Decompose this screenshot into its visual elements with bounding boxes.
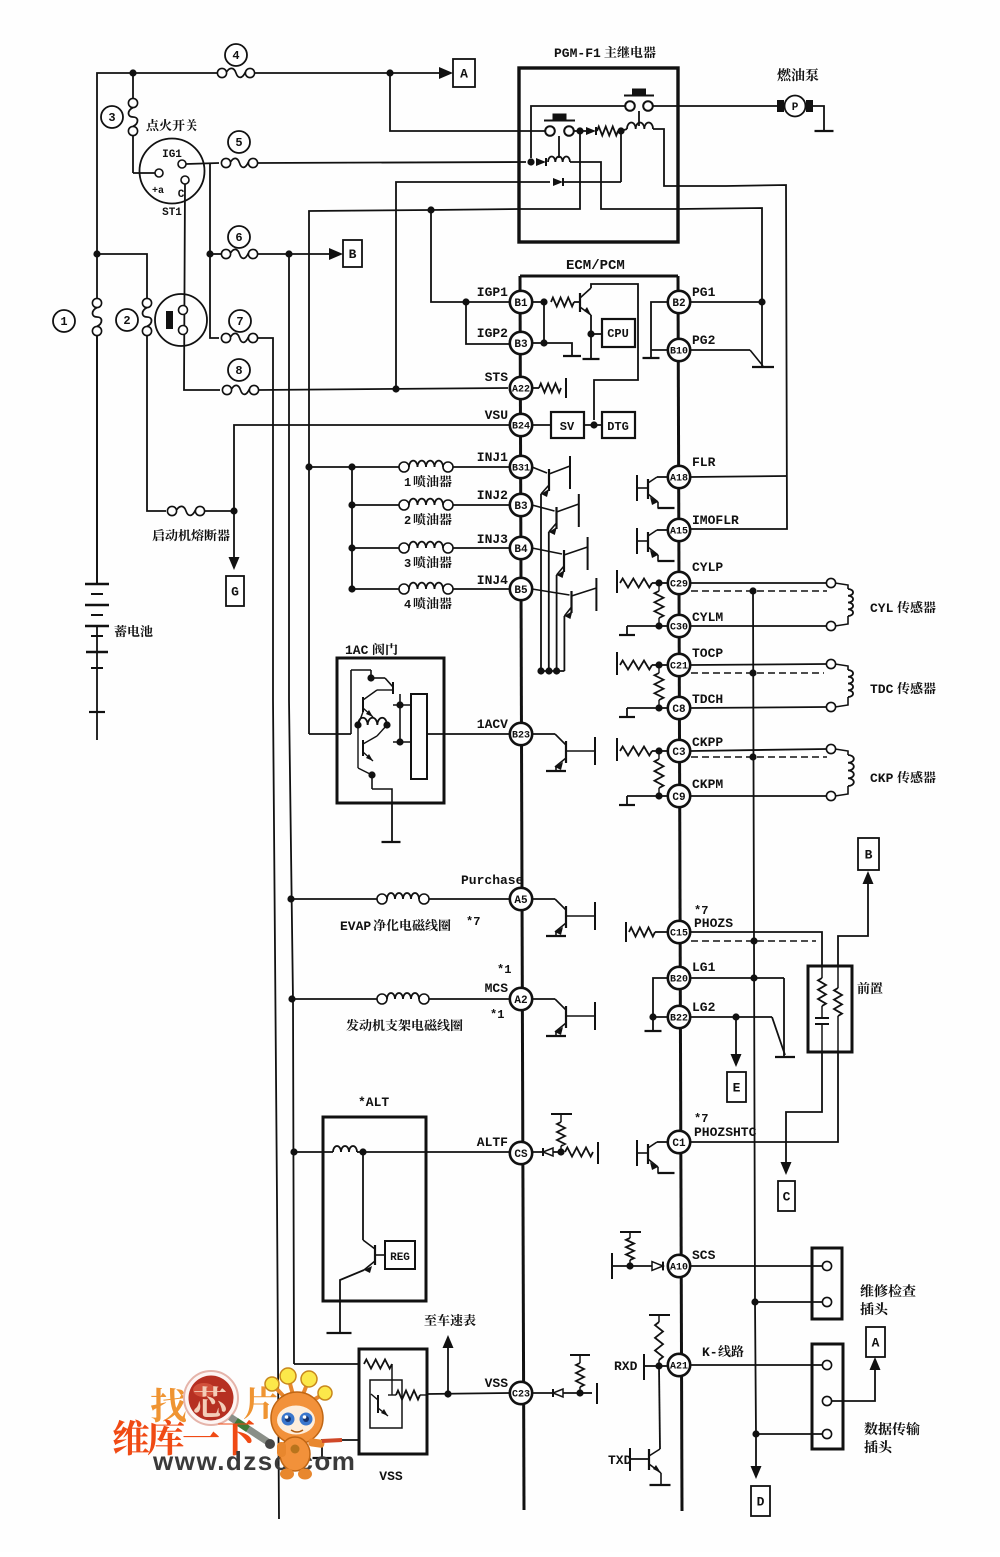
battery 蓄电池	[85, 336, 109, 740]
node SV-DTG	[584, 421, 602, 428]
svg-text:B22: B22	[670, 1014, 688, 1025]
svg-text:B3: B3	[514, 501, 528, 513]
label 1ACV	[477, 717, 508, 732]
pin A15 (IMOFLR)	[668, 519, 690, 541]
1AC valve armature rect	[411, 694, 427, 779]
wire inj2 emitter down	[548, 532, 550, 671]
terminal bar TXD	[630, 1448, 649, 1471]
terminal bar RXD	[644, 1354, 659, 1380]
label TDCH	[692, 692, 723, 707]
ECM box left border	[520, 276, 524, 1510]
svg-text:C: C	[783, 1190, 791, 1205]
wire fuse2 to starter fuse	[147, 336, 166, 511]
resistor R4 (PHOZS)	[626, 922, 668, 942]
shield wire CKP (dashed)	[691, 756, 827, 758]
wire CKPP to sensor	[691, 749, 826, 751]
svg-text:PHOZSHTC: PHOZSHTC	[694, 1125, 757, 1140]
ECM box top border	[520, 275, 678, 278]
fuse 7	[221, 310, 257, 343]
transistor Q6 (Purchase driver)	[533, 899, 595, 936]
svg-text:C3: C3	[672, 747, 686, 759]
svg-text:B5: B5	[514, 585, 528, 597]
svg-text:C8: C8	[672, 704, 686, 716]
node LG1 shield tie	[750, 974, 757, 981]
ignition switch label 点火开关	[146, 119, 196, 131]
node shield PHOZS	[750, 937, 757, 944]
relay contact K1 (fuel pump)	[624, 89, 654, 111]
wire IGP1-IGP2 internal tie	[543, 302, 545, 343]
connector box B2	[858, 838, 879, 870]
svg-text:LG2: LG2	[692, 1000, 716, 1015]
resistor R5 (preamp left)	[818, 966, 826, 1018]
wire PHOZS to preamp	[691, 932, 822, 966]
fuse 5	[221, 131, 257, 168]
ground fuel pump	[815, 130, 834, 132]
wire 1AC feed entry	[309, 733, 351, 735]
label STS	[485, 370, 509, 385]
terminal bar ALTF	[597, 1142, 599, 1164]
terminal bar VSS	[580, 1383, 597, 1404]
connector box A	[453, 59, 475, 87]
wire armature K1	[638, 111, 640, 126]
node speedometer tap	[444, 1390, 451, 1397]
wire inj3 emitter down	[556, 575, 558, 671]
label 3喷油器	[404, 556, 452, 571]
pin C3 (CKPP)	[668, 740, 690, 762]
node shield to data connector	[752, 1430, 759, 1437]
svg-text:B2: B2	[672, 298, 685, 310]
watermark dzsc logo	[113, 1368, 356, 1480]
arrow to connector B	[329, 248, 343, 260]
terminal bar SCS	[612, 1253, 630, 1279]
wire preamp right to connector B arrow	[838, 874, 868, 966]
wire ST1 to fuse 8	[184, 184, 220, 390]
svg-text:A10: A10	[670, 1263, 688, 1274]
wire fuse7 net vertical	[258, 338, 279, 1519]
resistor network TDC (C21/C8)	[617, 652, 668, 717]
resistor R7 (ALTF series)	[565, 1148, 593, 1157]
label Purchase	[461, 873, 524, 888]
wire LG2 diagonal to ground	[772, 1017, 785, 1055]
arrow to connector E	[731, 1054, 742, 1067]
fuse 4	[217, 44, 254, 78]
shield wire TDC (dashed)	[691, 672, 824, 674]
svg-text:STS: STS	[485, 370, 509, 385]
shield wire CYL (dashed)	[691, 590, 827, 592]
transistor Q7 (MCS driver)	[533, 999, 595, 1036]
wire to ignition +a	[133, 172, 155, 174]
transistor Q5 (PHOZSHTC)	[637, 1140, 675, 1173]
connector box G	[226, 576, 244, 606]
wire PG1 to ground	[761, 302, 763, 366]
svg-text:EVAP: EVAP	[340, 919, 371, 934]
pin A21 (K-line)	[668, 1354, 690, 1376]
label *1 below MCS	[490, 1008, 504, 1022]
ECM/PCM label	[566, 258, 625, 274]
svg-text:P: P	[792, 102, 799, 114]
label 1喷油器	[404, 475, 452, 490]
label K-线路	[702, 1345, 744, 1360]
node LG2 branch E	[732, 1013, 739, 1020]
svg-text:IGP2: IGP2	[477, 326, 508, 341]
svg-text:C21: C21	[670, 662, 688, 673]
svg-text:SV: SV	[560, 420, 575, 434]
label *7 MCS row	[466, 915, 480, 929]
terminal bar ALTF pullup	[551, 1113, 572, 1115]
injector coil 3喷油器	[352, 542, 509, 553]
svg-text:LG1: LG1	[692, 960, 716, 975]
terminal bar SCS pullup	[620, 1231, 641, 1233]
connector box A2	[866, 1327, 885, 1357]
pin C21 (TOCP)	[668, 654, 690, 676]
label INJ3	[477, 532, 508, 547]
wire LG1	[691, 977, 784, 979]
node shield CYL	[749, 587, 756, 594]
label 前置	[857, 982, 882, 994]
wire battery positive rail	[97, 73, 448, 584]
label 至车速表	[424, 1314, 475, 1326]
label Purchase *1	[497, 963, 511, 977]
node shield to service connector	[751, 1298, 758, 1305]
wire FLR to relay coil vertical	[691, 476, 787, 477]
pin C8 (TDCH)	[668, 697, 690, 719]
label PG2	[692, 333, 716, 348]
transistor Q inj3	[532, 537, 588, 578]
node MCS feed	[288, 995, 295, 1002]
label MCS	[485, 981, 509, 996]
node fuse6 branch	[285, 250, 292, 257]
wire RXD node to TXD transistor	[659, 1366, 660, 1449]
wire to fuse 2	[97, 254, 147, 298]
svg-text:ALTF: ALTF	[477, 1135, 508, 1150]
svg-text:B4: B4	[514, 544, 528, 556]
pin C30 (CYLM)	[668, 615, 690, 637]
wire preamp right to PHOZSHTC	[691, 1052, 838, 1142]
transistor Q8 (regulator)	[363, 1240, 385, 1273]
pin C15 (PHOZS)	[668, 921, 690, 943]
label *ALT	[358, 1095, 389, 1110]
wire coil L2 to relay output right	[570, 162, 678, 209]
wire arrow stem to E	[735, 1017, 737, 1060]
VSS sensor box	[359, 1349, 427, 1454]
svg-text:CYL: CYL	[870, 601, 894, 616]
wire fuse5 to relay coil	[258, 162, 526, 163]
svg-text:A: A	[460, 67, 468, 82]
wire shield to service connector	[755, 1301, 822, 1303]
transistor Q2 (1ACV driver)	[533, 734, 595, 771]
node IGP2 branch	[462, 298, 469, 305]
svg-text:A2: A2	[514, 995, 527, 1007]
wire to speedometer	[447, 1341, 449, 1394]
TDC sensor coil	[826, 659, 853, 711]
wire PG2 external	[691, 350, 763, 366]
label *7 PHOZS	[694, 904, 733, 931]
label INJ1	[477, 450, 508, 465]
label IGP1	[477, 285, 508, 300]
svg-text:B: B	[865, 848, 873, 863]
svg-text:VSS: VSS	[485, 1376, 509, 1391]
wire fuse6 net vertical	[289, 254, 294, 1364]
wire inj1 emitter down	[540, 494, 542, 671]
1AC valve internal circuit	[351, 668, 411, 803]
node STS/relay-diode junction	[392, 385, 399, 392]
svg-text:K-: K-	[702, 1345, 718, 1360]
fuse 8	[222, 359, 258, 395]
wire VSS to C23	[427, 1393, 509, 1394]
svg-text:CKP: CKP	[870, 771, 894, 786]
svg-text:IMOFLR: IMOFLR	[692, 513, 739, 528]
node RXD	[655, 1362, 662, 1369]
svg-text:A21: A21	[670, 1362, 688, 1373]
pin B3 (INJ2)	[510, 494, 532, 516]
wire inj4 emitter down	[563, 616, 565, 671]
wire B10 internal tie	[651, 349, 668, 351]
wire ALTF to CS	[363, 1151, 509, 1153]
arrow to connector C	[781, 1162, 792, 1175]
pin B1 (IGP1)	[510, 291, 532, 313]
label INJ2	[477, 488, 508, 503]
wire PG1 external	[691, 301, 762, 303]
label VSS box	[379, 1469, 403, 1484]
label IGP2	[477, 326, 508, 341]
resistor R10 (SCS pullup)	[626, 1232, 634, 1266]
fuse 3	[101, 73, 138, 173]
pin CS (ALTF)	[510, 1142, 532, 1164]
resistor R2 (IGP1 base)	[551, 298, 574, 307]
node coil L1 input	[617, 127, 627, 134]
label PG1	[692, 285, 716, 300]
pin B31 (INJ1)	[510, 456, 532, 478]
svg-text:www.dzsc.com: www.dzsc.com	[152, 1446, 356, 1476]
terminal bar K-line pullup	[649, 1314, 670, 1316]
resistor R8 (ALTF pullup)	[557, 1114, 565, 1152]
data link connector box	[812, 1344, 843, 1449]
wire fuse8 to STS pin A22	[259, 388, 508, 390]
REG box	[385, 1241, 415, 1269]
injector coil 1喷油器	[352, 461, 509, 472]
wire Q1 collector loop to DTG node	[591, 284, 638, 420]
shield wire PHOZS (dashed)	[691, 940, 816, 942]
label SCS	[692, 1248, 716, 1263]
pin B20 (LG1)	[668, 967, 690, 989]
connector box E	[727, 1072, 746, 1102]
wire RXD to A21	[659, 1365, 668, 1367]
pin A5 (Purchase)	[510, 888, 532, 910]
svg-text:B31: B31	[512, 464, 530, 475]
svg-text:3: 3	[108, 111, 115, 125]
svg-text:PHOZS: PHOZS	[694, 916, 733, 931]
wire IG1 branch down to fuse6/fuse7	[210, 163, 219, 338]
relay label PGM-F1主继电器	[554, 46, 656, 61]
node SCS internal	[626, 1262, 633, 1269]
transistor Q inj1	[532, 456, 570, 497]
wire fuse6 to connector B	[258, 253, 337, 255]
arrow to connector D	[751, 1466, 762, 1479]
svg-text:MCS: MCS	[485, 981, 509, 996]
node shield TDC	[749, 669, 756, 676]
svg-text:TOCP: TOCP	[692, 646, 723, 661]
svg-text:B20: B20	[670, 975, 688, 986]
wire ALT coil to regulator transistor	[362, 1152, 364, 1240]
label 4喷油器	[404, 597, 452, 612]
wire injector emitter bus	[537, 667, 564, 674]
label LG1	[692, 960, 716, 975]
battery label 蓄电池	[114, 625, 152, 637]
node injector feed 2	[348, 501, 355, 508]
svg-text:A5: A5	[514, 895, 528, 907]
wire VSU feed	[234, 425, 509, 511]
node injector feed 4	[348, 585, 355, 592]
fuse 6	[210, 226, 258, 259]
node IGP feed	[427, 206, 434, 213]
svg-text:1: 1	[60, 315, 67, 329]
svg-text:TXD: TXD	[608, 1453, 632, 1468]
transistor Q4 (IMOFLR driver)	[637, 528, 675, 561]
wire LG2	[691, 1016, 772, 1018]
svg-text:4: 4	[232, 49, 239, 63]
node ALTF internal	[557, 1148, 564, 1155]
svg-text:B1: B1	[514, 298, 528, 310]
terminal bar VSS pullup	[570, 1354, 590, 1356]
diode D1	[574, 127, 596, 135]
node coil L2 input	[527, 158, 534, 165]
node fuse3/fuse4 junction	[129, 69, 136, 76]
node injector feed 1	[305, 463, 355, 470]
arrow to connector A	[439, 67, 453, 79]
node B1 internal	[532, 298, 548, 305]
svg-text:A22: A22	[512, 385, 530, 396]
wire K2 node to left output	[519, 131, 580, 209]
wire relay output to IGP	[309, 209, 519, 734]
label CKPM	[692, 777, 723, 792]
terminal bar STS	[565, 378, 567, 398]
transistor Q1 (IGP)	[574, 288, 591, 315]
wire B20-B22 internal	[653, 978, 668, 1017]
pin C1 (PHOZSHTC)	[668, 1131, 690, 1153]
wire coil L1 right to PG ground exit	[653, 129, 726, 186]
wire CYLP to sensor	[691, 582, 826, 584]
capacitor C preamp	[815, 1018, 829, 1052]
node B3 internal	[532, 339, 548, 346]
node fuse 6 input	[206, 250, 213, 257]
wire VSS box lower ground	[322, 1440, 359, 1457]
svg-text:CS: CS	[514, 1149, 528, 1161]
service check connector box	[812, 1248, 842, 1319]
svg-text:*1: *1	[490, 1008, 504, 1022]
pin C29 (CYLP)	[668, 572, 690, 594]
label 1AC阀门	[345, 643, 397, 658]
diode D3	[553, 131, 621, 186]
svg-text:CYLM: CYLM	[692, 610, 723, 625]
wire relay contact feed	[390, 73, 545, 131]
fuel pump label 燃油泵	[777, 68, 818, 81]
EVAP solenoid coil EVAP净化电磁线圈	[291, 893, 509, 904]
pin B5 (INJ4)	[510, 578, 532, 600]
svg-text:*7: *7	[694, 1112, 708, 1126]
fuse 2	[116, 298, 152, 335]
svg-text:C23: C23	[512, 1390, 530, 1401]
svg-text:*ALT: *ALT	[358, 1095, 389, 1110]
pin A10 (SCS)	[668, 1255, 690, 1277]
resistor R6 (preamp right)	[834, 966, 842, 1052]
ground VSS box	[313, 1457, 332, 1459]
DTG box	[602, 412, 635, 438]
svg-text:D: D	[757, 1495, 765, 1510]
resistor R9 (VSS pullup)	[576, 1355, 584, 1393]
wire CYLM to sensor	[691, 625, 826, 627]
label IMOFLR	[692, 513, 739, 528]
wire shield to data connector	[756, 1433, 822, 1435]
wire relay coil vertical to IMOFLR	[691, 185, 787, 529]
resistor network CYL (C29/C30)	[617, 570, 668, 635]
pin B4 (INJ3)	[510, 537, 532, 559]
label 发动机支架电磁线圈	[346, 1019, 462, 1031]
alternator field coil	[294, 1146, 357, 1152]
ground ALT	[327, 1332, 352, 1334]
svg-text:4: 4	[404, 598, 411, 612]
wire fuel pump to ground	[813, 106, 824, 130]
svg-text:CKPP: CKPP	[692, 735, 723, 750]
wire CKPM to sensor	[691, 795, 826, 797]
svg-text:INJ2: INJ2	[477, 488, 508, 503]
svg-text:A: A	[872, 1336, 880, 1351]
preamp box 前置	[808, 966, 852, 1052]
wire armature K2	[558, 136, 560, 158]
pin B2 (PG1)	[668, 291, 690, 313]
arrow to connector B2	[863, 871, 874, 884]
wire LG1 to ground	[783, 978, 785, 1056]
pin B22 (LG2)	[668, 1006, 690, 1028]
wire K-line to data connector	[691, 1364, 822, 1366]
svg-text:ECM/PCM: ECM/PCM	[566, 258, 625, 274]
node ALT coil out	[357, 1148, 367, 1155]
label FLR	[692, 455, 716, 470]
relay coil L1	[627, 122, 653, 129]
svg-text:C15: C15	[670, 929, 688, 940]
svg-text:REG: REG	[390, 1252, 410, 1264]
label 2喷油器	[404, 513, 452, 528]
node K2 output	[576, 127, 583, 134]
pin B3 (IGP2)	[510, 332, 532, 354]
svg-text:1: 1	[404, 476, 411, 490]
label *7 PHOZSHTC	[694, 1112, 757, 1140]
svg-text:IG1: IG1	[162, 149, 182, 161]
starter fuse label	[152, 529, 229, 541]
svg-text:PGM-F1: PGM-F1	[554, 46, 601, 61]
alternator box *ALT	[323, 1117, 426, 1301]
starter fuse 启动机熔断器	[167, 506, 204, 515]
wire contact K1 to coil net	[531, 106, 625, 158]
wire regulator emitter to ground	[340, 1270, 364, 1332]
diode D4 (ALTF)	[532, 1148, 561, 1156]
pin A22 (STS)	[510, 377, 532, 399]
VSS internal resistor	[364, 1360, 392, 1381]
svg-text:INJ3: INJ3	[477, 532, 508, 547]
relay box PGM-F1	[519, 68, 678, 242]
node injector feed 3	[348, 544, 355, 551]
svg-text:2: 2	[123, 314, 130, 328]
label CYLP	[692, 560, 723, 575]
svg-text:B23: B23	[512, 731, 530, 742]
connector box D	[751, 1486, 770, 1516]
wire starter fuse output	[205, 510, 234, 512]
svg-text:C9: C9	[672, 792, 685, 804]
fuse 1	[53, 298, 102, 335]
CPU box	[591, 319, 635, 347]
svg-text:*7: *7	[466, 915, 480, 929]
svg-text:3: 3	[404, 557, 411, 571]
node relay feed tap	[386, 69, 393, 76]
